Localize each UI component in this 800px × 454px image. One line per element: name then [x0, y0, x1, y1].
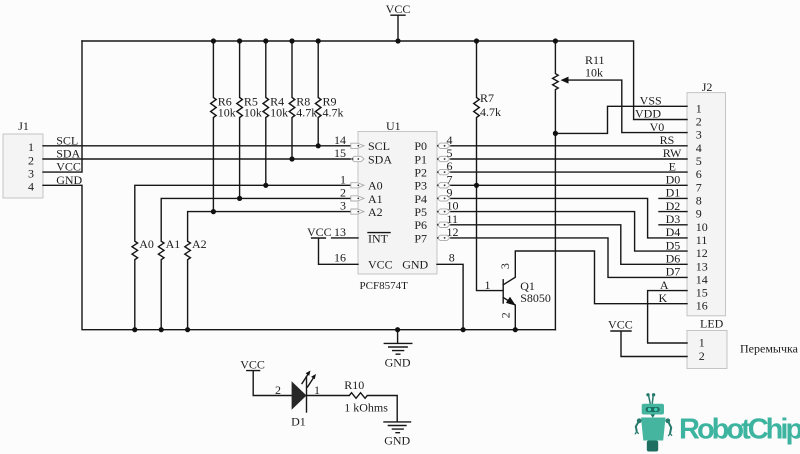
- svg-text:14: 14: [696, 272, 708, 286]
- svg-text:1: 1: [696, 101, 702, 115]
- svg-text:2: 2: [340, 185, 346, 199]
- svg-text:A1: A1: [166, 237, 181, 251]
- svg-text:S8050: S8050: [520, 291, 551, 305]
- svg-text:A0: A0: [139, 237, 154, 251]
- svg-text:D0: D0: [666, 173, 681, 187]
- svg-text:16: 16: [696, 299, 708, 313]
- svg-text:VCC: VCC: [368, 258, 393, 272]
- svg-text:12: 12: [447, 225, 459, 239]
- svg-text:P7: P7: [414, 231, 427, 245]
- svg-text:SDA: SDA: [368, 152, 392, 166]
- svg-text:2: 2: [696, 115, 702, 129]
- svg-text:1: 1: [28, 140, 34, 154]
- svg-text:D7: D7: [666, 265, 681, 279]
- svg-text:P1: P1: [414, 152, 427, 166]
- svg-text:RS: RS: [660, 133, 675, 147]
- svg-text:D2: D2: [666, 199, 681, 213]
- svg-text:3: 3: [498, 263, 512, 269]
- svg-text:4.7k: 4.7k: [480, 105, 501, 119]
- svg-text:D3: D3: [666, 212, 681, 226]
- svg-text:RW: RW: [663, 146, 682, 160]
- svg-text:8: 8: [696, 193, 702, 207]
- svg-text:8: 8: [449, 251, 455, 265]
- svg-text:13: 13: [696, 259, 708, 273]
- svg-text:P2: P2: [414, 166, 427, 180]
- svg-text:VCC: VCC: [608, 317, 633, 331]
- svg-text:10k: 10k: [585, 66, 603, 80]
- svg-text:VCC: VCC: [307, 225, 332, 239]
- svg-text:J1: J1: [18, 119, 29, 133]
- svg-text:11: 11: [447, 212, 459, 226]
- svg-text:4.7k: 4.7k: [323, 105, 344, 119]
- svg-text:INT: INT: [368, 231, 389, 245]
- svg-text:6: 6: [447, 159, 453, 173]
- svg-text:2: 2: [499, 312, 513, 318]
- svg-text:10: 10: [696, 220, 708, 234]
- svg-text:3: 3: [28, 166, 34, 180]
- svg-text:D1: D1: [291, 414, 306, 428]
- svg-text:5: 5: [447, 146, 453, 160]
- svg-text:4: 4: [447, 133, 453, 147]
- svg-text:A: A: [660, 278, 669, 292]
- svg-text:7: 7: [696, 180, 702, 194]
- svg-text:VCC: VCC: [386, 2, 411, 16]
- svg-text:15: 15: [334, 146, 346, 160]
- svg-text:P5: P5: [414, 205, 427, 219]
- svg-text:GND: GND: [56, 173, 82, 187]
- svg-text:VSS: VSS: [640, 94, 662, 108]
- svg-text:P0: P0: [414, 139, 427, 153]
- svg-text:A0: A0: [368, 179, 383, 193]
- svg-text:A2: A2: [368, 205, 383, 219]
- svg-text:5: 5: [696, 154, 702, 168]
- svg-text:D6: D6: [666, 251, 681, 265]
- svg-text:E: E: [669, 159, 676, 173]
- svg-text:1 kOhms: 1 kOhms: [344, 400, 388, 414]
- svg-text:13: 13: [334, 225, 346, 239]
- svg-text:10k: 10k: [244, 105, 262, 119]
- svg-text:GND: GND: [384, 434, 410, 448]
- svg-text:15: 15: [696, 286, 708, 300]
- svg-text:1: 1: [314, 383, 320, 397]
- svg-text:4.7k: 4.7k: [296, 105, 317, 119]
- svg-text:P4: P4: [414, 192, 427, 206]
- svg-text:PCF8574T: PCF8574T: [360, 280, 409, 292]
- svg-text:J2: J2: [702, 80, 713, 94]
- svg-text:7: 7: [447, 172, 453, 186]
- svg-text:K: K: [659, 291, 668, 305]
- svg-text:SCL: SCL: [56, 133, 78, 147]
- svg-text:R10: R10: [344, 378, 364, 392]
- svg-text:14: 14: [334, 133, 346, 147]
- svg-text:4: 4: [696, 141, 702, 155]
- svg-text:A2: A2: [192, 237, 207, 251]
- svg-text:P3: P3: [414, 179, 427, 193]
- svg-text:10k: 10k: [270, 105, 288, 119]
- svg-text:GND: GND: [402, 258, 428, 272]
- svg-text:GND: GND: [385, 355, 411, 369]
- svg-text:16: 16: [334, 250, 346, 264]
- svg-text:VCC: VCC: [240, 357, 265, 371]
- svg-text:VCC: VCC: [56, 160, 81, 174]
- svg-text:2: 2: [28, 153, 34, 167]
- svg-text:6: 6: [696, 167, 702, 181]
- svg-text:4: 4: [28, 180, 34, 194]
- svg-text:RobotChip: RobotChip: [679, 414, 800, 446]
- svg-text:D4: D4: [666, 225, 681, 239]
- svg-text:3: 3: [696, 128, 702, 142]
- svg-text:VDD: VDD: [635, 107, 661, 121]
- svg-text:A1: A1: [368, 192, 383, 206]
- svg-text:Перемычка: Перемычка: [740, 342, 799, 356]
- svg-text:D1: D1: [666, 186, 681, 200]
- svg-text:9: 9: [447, 185, 453, 199]
- svg-text:11: 11: [696, 233, 708, 247]
- svg-text:9: 9: [696, 207, 702, 221]
- svg-text:SCL: SCL: [368, 139, 390, 153]
- svg-text:12: 12: [696, 246, 708, 260]
- svg-text:U1: U1: [386, 119, 401, 133]
- svg-text:LED: LED: [700, 317, 724, 331]
- svg-text:10: 10: [447, 199, 459, 213]
- svg-text:2: 2: [275, 383, 281, 397]
- svg-text:1: 1: [699, 336, 705, 350]
- svg-text:3: 3: [340, 199, 346, 213]
- svg-text:R7: R7: [480, 91, 494, 105]
- svg-text:V0: V0: [650, 120, 665, 134]
- svg-text:P6: P6: [414, 218, 427, 232]
- svg-text:1: 1: [340, 172, 346, 186]
- svg-text:D5: D5: [666, 238, 681, 252]
- svg-text:2: 2: [699, 349, 705, 363]
- svg-text:1: 1: [485, 278, 491, 292]
- svg-text:10k: 10k: [218, 105, 236, 119]
- svg-text:SDA: SDA: [56, 147, 80, 161]
